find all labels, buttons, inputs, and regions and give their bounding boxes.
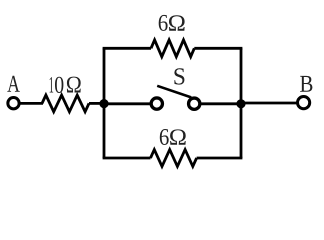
terminal A xyxy=(8,98,19,109)
value label 10ohm digit 0 xyxy=(55,77,63,93)
wire 10ohm resistor to left node xyxy=(89,102,104,105)
wire A to 10ohm resistor xyxy=(20,102,43,105)
resistor 6ohm top xyxy=(151,40,194,57)
wire right node to terminal B xyxy=(241,102,297,105)
value label 6ohm bottom omega xyxy=(170,129,186,144)
switch S label xyxy=(174,68,184,84)
switch S lever xyxy=(157,86,191,98)
wire left vertical rail xyxy=(103,48,106,158)
value label 6ohm top omega xyxy=(169,15,185,30)
resistor 6ohm bottom xyxy=(151,150,197,167)
junction dot left node xyxy=(99,99,108,108)
value label 10ohm digit 1 xyxy=(50,77,54,92)
value label 6ohm bottom digit 6 xyxy=(160,129,169,145)
wire right vertical rail xyxy=(240,48,243,158)
wire top branch left segment xyxy=(103,47,151,50)
wire top branch right segment xyxy=(194,47,242,50)
switch S right contact xyxy=(189,98,200,109)
value label 10ohm omega xyxy=(67,77,81,93)
wire middle branch left segment xyxy=(104,102,150,105)
wire bottom branch right segment xyxy=(197,157,243,160)
wire bottom branch left segment xyxy=(103,157,151,160)
wire middle branch right segment xyxy=(201,102,241,105)
switch S left contact xyxy=(151,98,162,109)
value label 6ohm top digit 6 xyxy=(159,15,168,31)
node A label xyxy=(7,76,20,92)
resistor 10ohm xyxy=(42,95,89,112)
terminal B xyxy=(298,97,310,109)
node B label xyxy=(300,76,312,92)
junction dot right node xyxy=(236,99,245,108)
